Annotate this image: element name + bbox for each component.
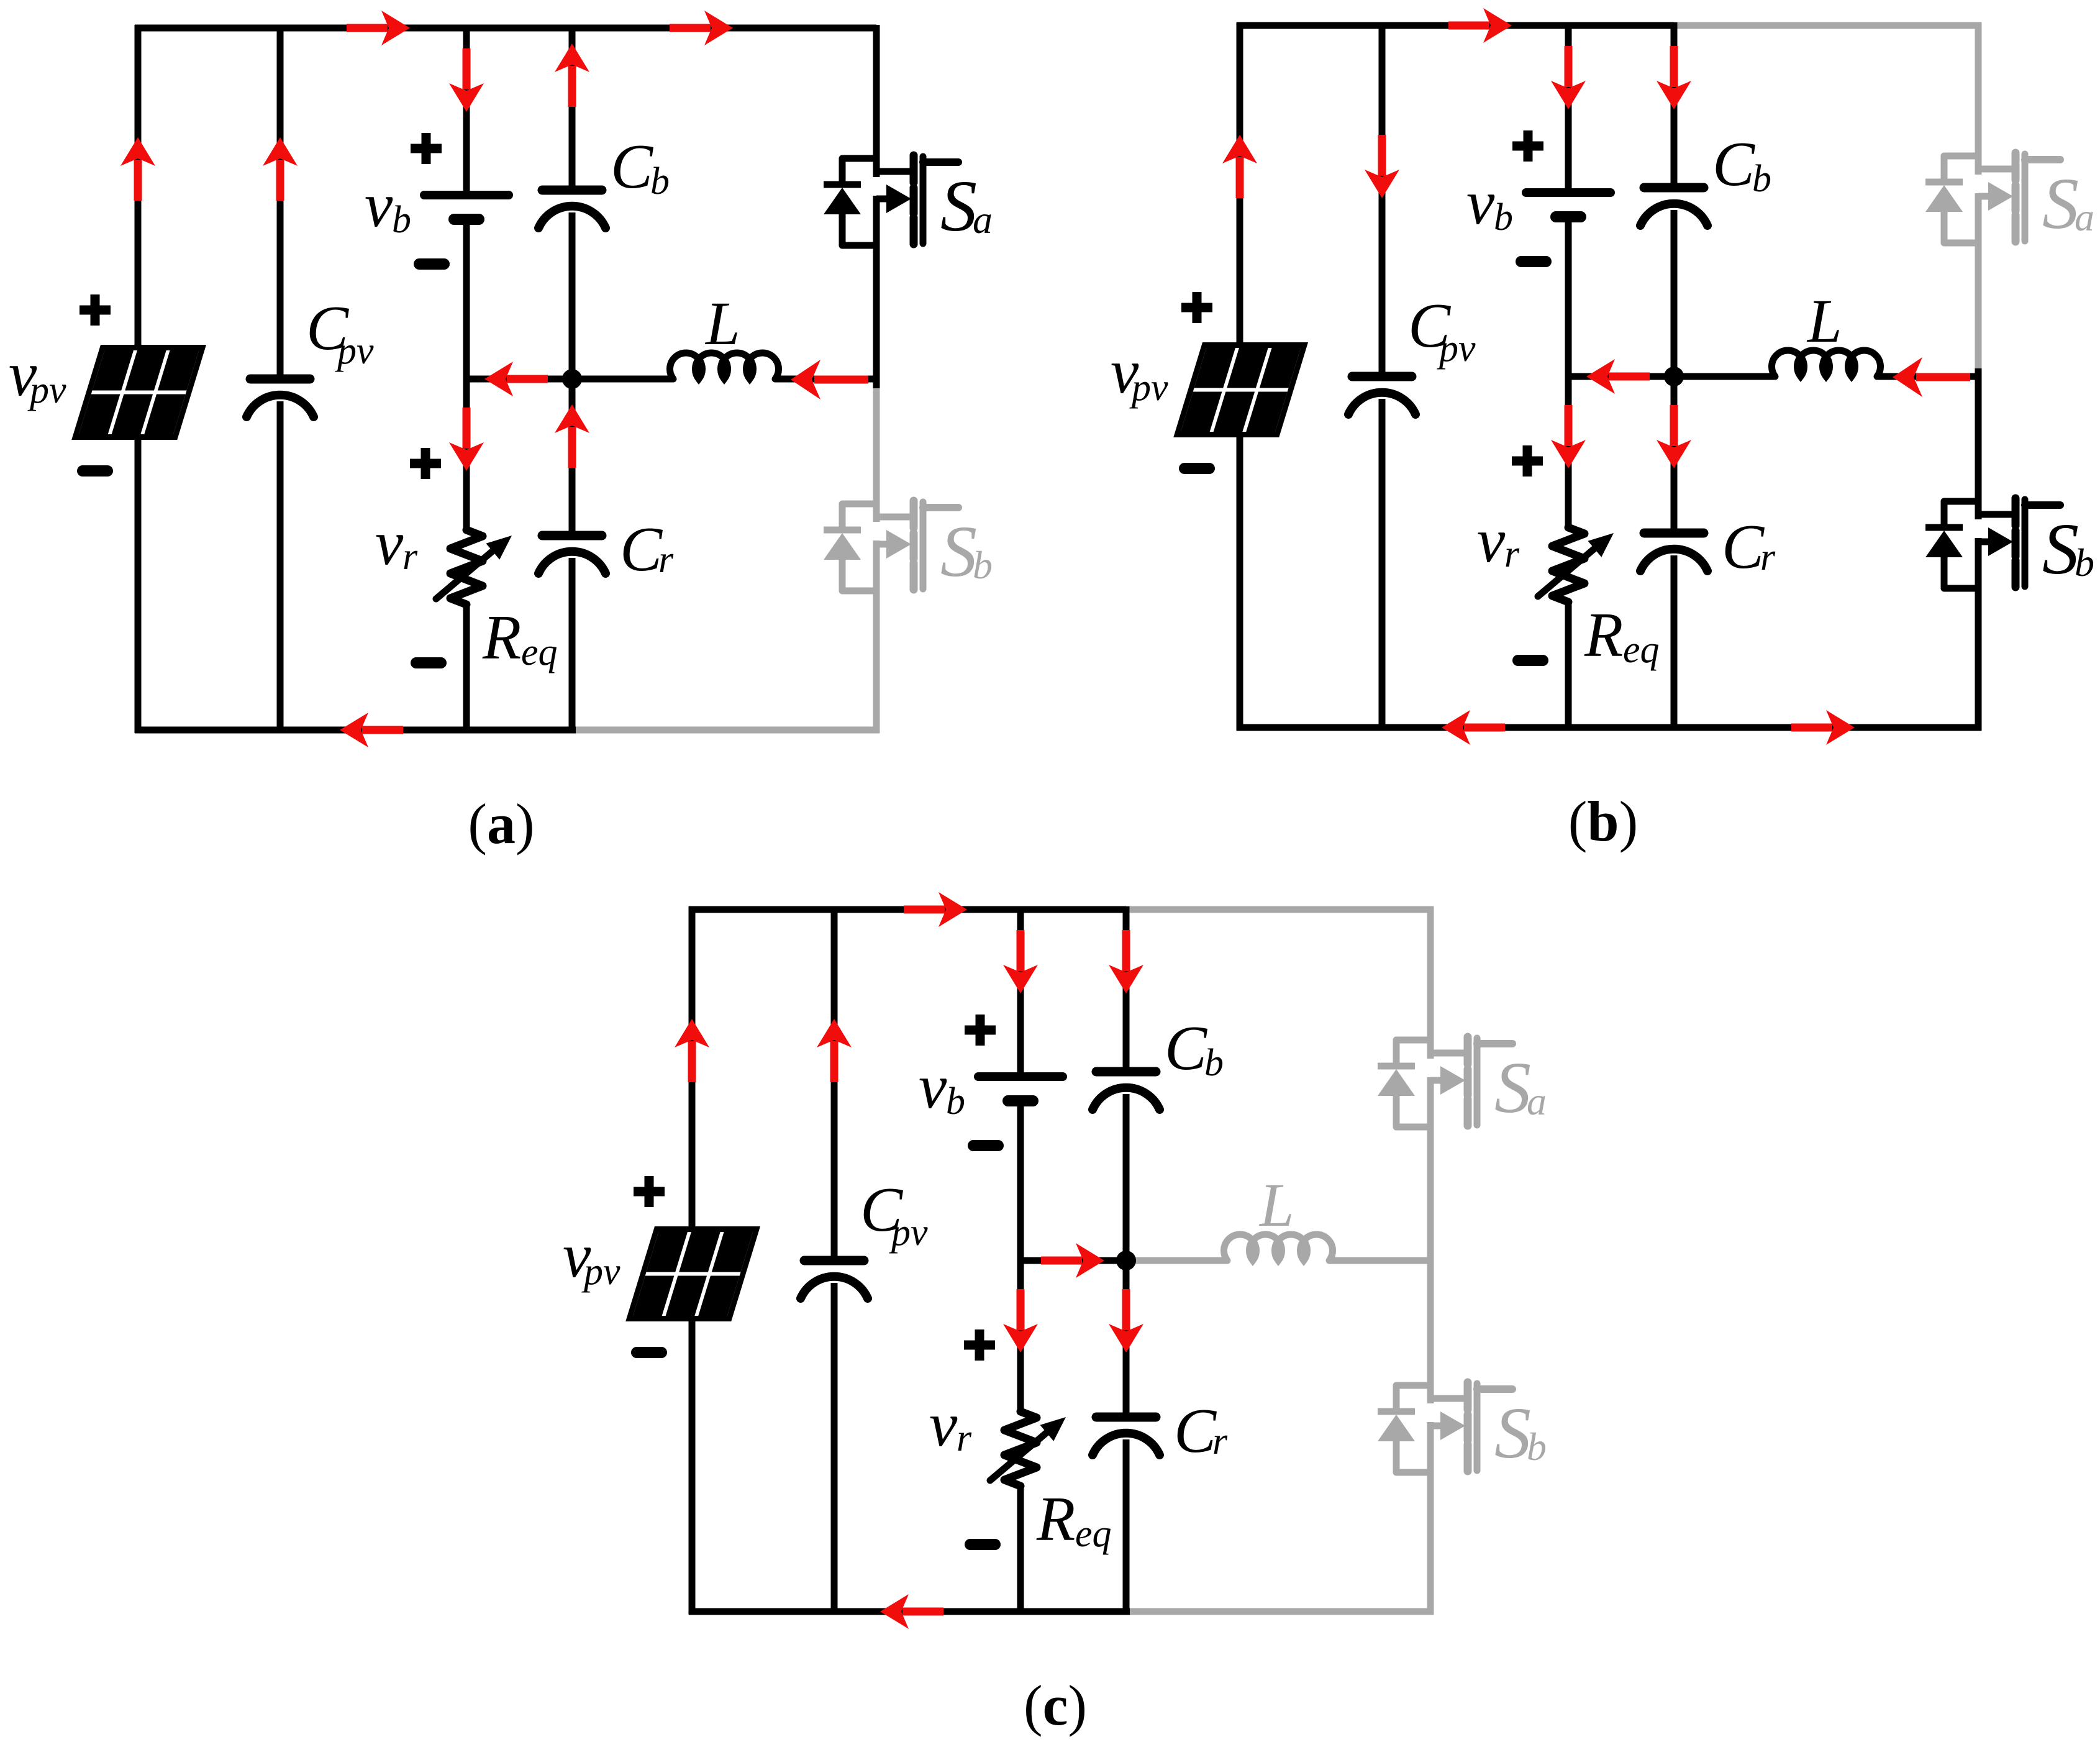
polarity + of vpv (c) bbox=[634, 1176, 665, 1207]
current arrow: (a) Cpv branch upward bbox=[263, 137, 298, 201]
svg-text:b: b bbox=[1204, 1042, 1224, 1084]
svg-text:b: b bbox=[2075, 540, 2094, 585]
svg-text:a: a bbox=[1527, 1079, 1547, 1123]
svg-text:eq: eq bbox=[1623, 629, 1660, 671]
polarity + of vb (a) bbox=[411, 133, 442, 164]
current arrow: (c) top rail rightward bbox=[904, 892, 967, 927]
wire: circuit (a) node to inductor bbox=[572, 376, 673, 383]
current arrow: (b) Cb branch downward bbox=[1657, 46, 1691, 109]
svg-text:C: C bbox=[1174, 1396, 1217, 1466]
svg-text:S: S bbox=[2042, 508, 2079, 590]
wire: circuit (c) node to inductor (inactive) bbox=[1126, 1257, 1227, 1264]
battery vb (c) bbox=[978, 1077, 1063, 1101]
svg-text:b: b bbox=[392, 199, 411, 241]
wire: circuit (b) inductor to right branch bbox=[1877, 373, 1981, 380]
polarity + of vb (c) bbox=[965, 1015, 996, 1046]
wire: circuit (a) top rail (active) bbox=[135, 25, 876, 32]
svg-text:r: r bbox=[1504, 533, 1520, 575]
wire: circuit (a) right branch upper (switch Sa leg, active) bbox=[873, 25, 880, 388]
current arrow: (c) Cpv branch upward bbox=[817, 1019, 852, 1082]
svg-text:R: R bbox=[482, 603, 521, 673]
current arrow: (c) Cr branch downward bbox=[1109, 1289, 1143, 1352]
current arrow: (a) top rail rightward bbox=[347, 11, 410, 45]
svg-text:C: C bbox=[620, 514, 663, 585]
capacitor Cb (a) bbox=[539, 190, 606, 228]
svg-text:b: b bbox=[946, 1080, 965, 1123]
current arrow: (b) Cpv branch downward bbox=[1365, 135, 1399, 198]
variable resistor Req (a) bbox=[436, 530, 512, 604]
inductor L (c) bbox=[1224, 1234, 1333, 1261]
current arrow: (b) inductor row leftward bbox=[1893, 357, 1970, 397]
capacitor Cb (b) bbox=[1640, 188, 1707, 226]
wire: circuit (c) battery-to-node link bbox=[1020, 1257, 1126, 1264]
current arrow: (b) top rail rightward bbox=[1448, 8, 1512, 43]
battery vb (a) bbox=[424, 195, 509, 219]
polarity - of vr (a) bbox=[416, 662, 441, 664]
current arrow: (c) Cb branch downward bbox=[1109, 930, 1143, 993]
capacitor Cr (b) bbox=[1640, 533, 1707, 571]
PV panel vpv (a) bbox=[71, 345, 206, 440]
current arrow: (a) Cb branch upward bbox=[555, 43, 589, 107]
svg-text:pv: pv bbox=[1129, 367, 1168, 409]
svg-text:r: r bbox=[957, 1417, 972, 1459]
svg-text:v: v bbox=[365, 170, 393, 240]
current arrow: (c) resistor branch downward bbox=[1003, 1289, 1038, 1352]
svg-text:r: r bbox=[1760, 536, 1776, 578]
svg-text:(c): (c) bbox=[1024, 1674, 1087, 1737]
current arrow: (a) top rail rightward 2 bbox=[670, 11, 733, 45]
inductor L (a) bbox=[670, 353, 779, 379]
current arrow: (c) into battery vb downward bbox=[1003, 930, 1038, 993]
svg-text:r: r bbox=[658, 539, 674, 581]
svg-text:C: C bbox=[611, 132, 653, 202]
wire: circuit (c) inductor to right branch (inactive) bbox=[1329, 1257, 1434, 1264]
svg-text:C: C bbox=[1722, 512, 1765, 582]
wire: circuit (b) bottom rail (active) bbox=[1237, 724, 1981, 731]
svg-text:v: v bbox=[929, 1390, 958, 1460]
capacitor Cb (c) bbox=[1093, 1072, 1160, 1110]
svg-text:pv: pv bbox=[889, 1211, 928, 1254]
wire: circuit (a) bottom rail right (inactive) bbox=[576, 727, 880, 734]
wire: circuit (c) battery/resistor branch bbox=[1017, 906, 1024, 1615]
transistor Sa MOSFET (c) bbox=[1378, 1037, 1512, 1127]
svg-text:S: S bbox=[940, 511, 977, 592]
transistor Sa MOSFET (b) bbox=[1925, 153, 2060, 243]
svg-text:L: L bbox=[1258, 1170, 1294, 1239]
current arrow: (b) into battery vb downward bbox=[1551, 46, 1586, 109]
svg-text:pv: pv bbox=[581, 1251, 620, 1293]
capacitor Cpv (a) bbox=[247, 379, 314, 417]
capacitor Cpv (b) bbox=[1348, 376, 1416, 414]
current arrow: (a) Cr branch upward bbox=[555, 404, 589, 468]
transistor Sb MOSFET (a) bbox=[824, 501, 958, 591]
variable resistor Req (c) bbox=[990, 1411, 1066, 1486]
current arrow: (b) bottom rail leftward bbox=[1442, 710, 1505, 745]
current arrow: (a) resistor branch downward bbox=[449, 408, 484, 471]
wire: circuit (b) top rail right (inactive) bbox=[1674, 22, 1981, 29]
wire: circuit (c) bottom rail left (active) bbox=[689, 1608, 1130, 1615]
wire: circuit (b) node to inductor bbox=[1674, 373, 1775, 380]
current arrow: (b) PV branch upward bbox=[1222, 135, 1257, 198]
svg-text:b: b bbox=[1752, 158, 1771, 200]
wire: circuit (b) right branch lower (switch Sb leg, active) bbox=[1975, 368, 1982, 731]
node: circuit (a) inductor junction bbox=[562, 369, 582, 389]
polarity - of vpv (c) bbox=[637, 1352, 661, 1353]
wire: circuit (b) battery/resistor branch bbox=[1565, 22, 1572, 731]
svg-text:r: r bbox=[1212, 1420, 1228, 1462]
transistor Sb MOSFET (c) bbox=[1378, 1382, 1512, 1472]
current arrow: (b) resistor branch downward bbox=[1551, 405, 1586, 468]
current arrow: (b) link row leftward from node bbox=[1586, 359, 1650, 394]
transistor Sb MOSFET (b) bbox=[1925, 498, 2060, 588]
polarity - of vpv (a) bbox=[83, 470, 107, 472]
transistor Sa MOSFET (a) bbox=[824, 155, 958, 245]
wire: circuit (a) Cpv branch bbox=[277, 25, 284, 733]
polarity - of vpv (b) bbox=[1184, 468, 1209, 469]
svg-text:(b): (b) bbox=[1568, 790, 1638, 853]
polarity + of vr (b) bbox=[1512, 445, 1543, 477]
svg-text:b: b bbox=[973, 543, 993, 587]
svg-text:eq: eq bbox=[1075, 1513, 1112, 1555]
svg-text:v: v bbox=[1477, 506, 1506, 576]
svg-text:v: v bbox=[919, 1052, 947, 1122]
wire: circuit (a) left branch (PV source) bbox=[135, 25, 142, 733]
svg-text:R: R bbox=[1036, 1484, 1075, 1554]
wire: circuit (c) right branch (inactive) bbox=[1427, 906, 1434, 1615]
node: circuit (b) inductor junction bbox=[1664, 367, 1684, 386]
current arrow: (a) bottom rail leftward bbox=[340, 713, 403, 747]
battery vb (b) bbox=[1526, 193, 1611, 217]
current arrow: (a) PV branch upward bbox=[120, 137, 155, 201]
wire: circuit (a) battery-to-node link bbox=[466, 376, 572, 383]
polarity - of vr (b) bbox=[1518, 660, 1543, 661]
svg-text:(a): (a) bbox=[468, 792, 534, 855]
wire: circuit (b) Cb/Cr branch bbox=[1671, 22, 1678, 731]
polarity - of vb (a) bbox=[419, 263, 444, 265]
polarity + of vpv (b) bbox=[1181, 292, 1212, 323]
capacitor Cpv (c) bbox=[801, 1261, 868, 1298]
svg-text:S: S bbox=[1494, 1047, 1531, 1128]
svg-text:S: S bbox=[1494, 1392, 1531, 1474]
capacitor Cr (c) bbox=[1093, 1417, 1160, 1455]
current arrow: (c) bottom rail leftward bbox=[880, 1594, 943, 1629]
svg-text:eq: eq bbox=[521, 631, 558, 673]
svg-text:S: S bbox=[2042, 163, 2079, 244]
node: circuit (c) inductor junction bbox=[1116, 1251, 1136, 1270]
polarity + of vr (c) bbox=[964, 1329, 995, 1361]
svg-text:b: b bbox=[1527, 1425, 1547, 1469]
wire: circuit (a) right branch lower (switch Sb leg, inactive) bbox=[873, 388, 880, 733]
variable resistor Req (b) bbox=[1538, 527, 1614, 602]
wire: circuit (b) right branch upper (switch Sa leg, inactive) bbox=[1975, 22, 1982, 368]
svg-text:pv: pv bbox=[335, 330, 374, 372]
inductor L (b) bbox=[1772, 350, 1881, 376]
svg-text:S: S bbox=[940, 165, 977, 247]
current arrow: (b) bottom rail rightward bbox=[1791, 710, 1855, 745]
polarity + of vb (b) bbox=[1512, 130, 1543, 162]
polarity - of vb (b) bbox=[1521, 261, 1546, 262]
PV panel vpv (c) bbox=[625, 1226, 760, 1321]
svg-text:a: a bbox=[2075, 195, 2094, 239]
svg-text:a: a bbox=[973, 198, 993, 242]
wire: circuit (b) battery-to-node link bbox=[1568, 373, 1674, 380]
svg-text:pv: pv bbox=[27, 369, 66, 411]
wire: circuit (a) Cb/Cr branch bbox=[569, 25, 576, 733]
svg-text:v: v bbox=[1466, 168, 1495, 238]
current arrow: (b) Cr branch downward bbox=[1657, 405, 1691, 468]
polarity + of vpv (a) bbox=[80, 294, 111, 326]
svg-text:R: R bbox=[1584, 600, 1623, 670]
svg-text:L: L bbox=[1806, 286, 1842, 355]
polarity - of vr (c) bbox=[970, 1544, 995, 1545]
current arrow: (a) into battery vb downward bbox=[449, 48, 484, 112]
polarity + of vr (a) bbox=[410, 448, 441, 479]
wire: circuit (b) Cpv branch bbox=[1379, 22, 1386, 731]
wire: circuit (b) top rail (active) bbox=[1237, 22, 1674, 29]
svg-text:r: r bbox=[402, 536, 418, 578]
wire: circuit (c) top rail (active) bbox=[689, 906, 1126, 913]
PV panel vpv (b) bbox=[1173, 342, 1308, 437]
wire: circuit (c) left branch (PV source) bbox=[689, 906, 696, 1615]
svg-text:b: b bbox=[1494, 196, 1513, 239]
wire: circuit (a) battery/resistor branch bbox=[463, 25, 470, 733]
wire: circuit (c) bottom rail right (inactive) bbox=[1130, 1608, 1434, 1615]
current arrow: (a) inductor row leftward bbox=[791, 360, 868, 399]
polarity - of vb (c) bbox=[973, 1145, 998, 1146]
wire: circuit (a) inductor to right branch bbox=[775, 376, 880, 383]
wire: circuit (c) top rail right (inactive) bbox=[1126, 906, 1434, 913]
capacitor Cr (a) bbox=[539, 536, 606, 573]
svg-text:C: C bbox=[1165, 1013, 1207, 1083]
svg-text:C: C bbox=[1712, 129, 1755, 199]
svg-text:L: L bbox=[704, 289, 740, 358]
wire: circuit (b) left branch (PV source) bbox=[1237, 22, 1243, 731]
wire: circuit (c) Cpv branch bbox=[831, 906, 838, 1615]
current arrow: (a) link row leftward from node bbox=[484, 362, 548, 396]
svg-text:b: b bbox=[650, 160, 670, 203]
wire: circuit (c) Cb/Cr branch bbox=[1123, 906, 1130, 1615]
svg-text:pv: pv bbox=[1437, 327, 1476, 370]
current arrow: (c) link row rightward into node bbox=[1041, 1243, 1104, 1278]
svg-text:v: v bbox=[375, 508, 404, 578]
current arrow: (c) PV branch upward bbox=[675, 1019, 709, 1082]
wire: circuit (a) bottom rail left (active) bbox=[135, 727, 576, 734]
